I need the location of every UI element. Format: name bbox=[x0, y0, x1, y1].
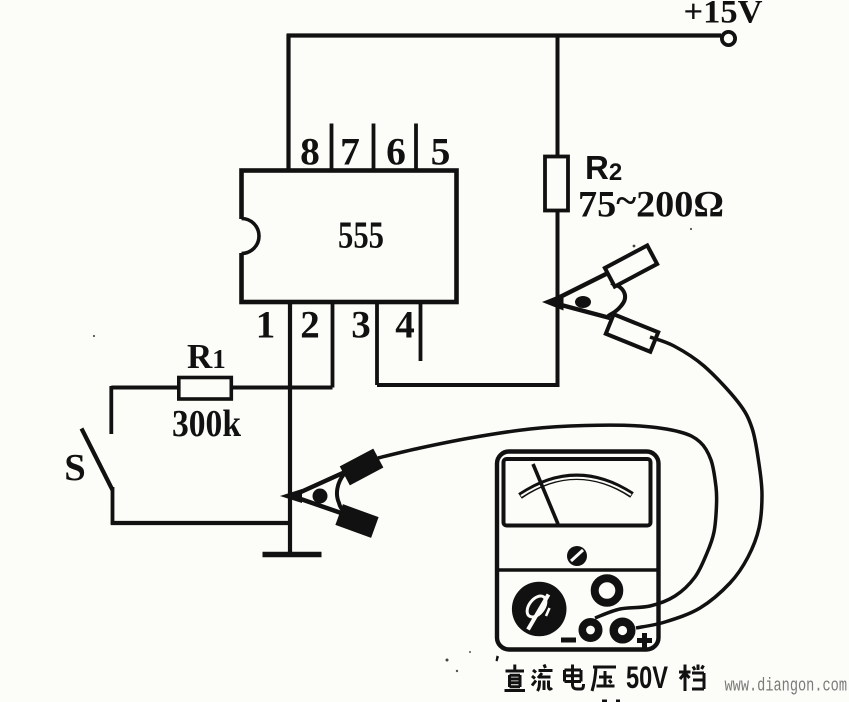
svg-text:3: 3 bbox=[351, 304, 371, 347]
svg-text:1: 1 bbox=[256, 304, 276, 347]
svg-text:www.diangon.com: www.diangon.com bbox=[725, 677, 848, 697]
svg-text:7: 7 bbox=[340, 130, 360, 174]
svg-text:2: 2 bbox=[300, 304, 320, 347]
svg-text:50V: 50V bbox=[626, 659, 668, 695]
svg-text:4: 4 bbox=[395, 304, 415, 347]
svg-text:5: 5 bbox=[431, 130, 451, 174]
svg-text:75~200Ω: 75~200Ω bbox=[578, 181, 724, 226]
svg-text:S: S bbox=[64, 447, 86, 489]
svg-text:8: 8 bbox=[300, 130, 320, 174]
svg-text:6: 6 bbox=[386, 130, 406, 174]
svg-text:+15V: +15V bbox=[684, 0, 764, 31]
svg-text:300k: 300k bbox=[172, 403, 242, 445]
svg-text:555: 555 bbox=[338, 215, 384, 257]
